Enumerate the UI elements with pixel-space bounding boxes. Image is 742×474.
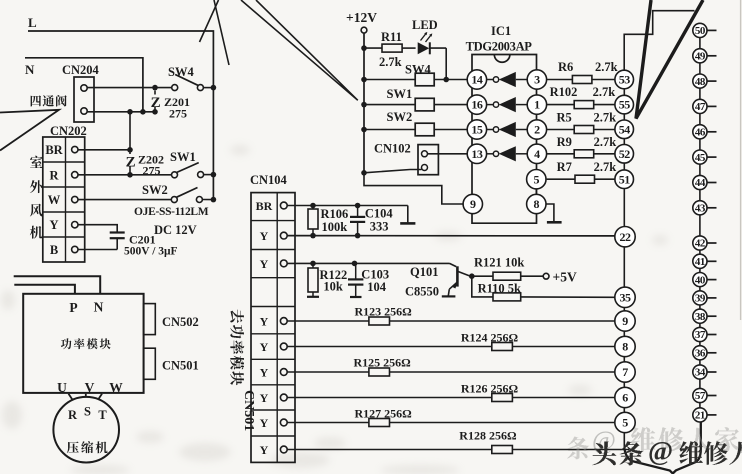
junction LED SW4 xyxy=(443,77,449,83)
transistor Q101 xyxy=(442,263,471,296)
connector CN104 label xyxy=(250,173,288,187)
node 43 xyxy=(693,201,717,215)
resistor R5 label xyxy=(557,111,617,125)
IC U1 pin 8 xyxy=(527,194,546,213)
svg-text:Y: Y xyxy=(260,366,269,380)
resistor R127 label xyxy=(355,407,413,421)
connector CN502 label xyxy=(162,315,199,329)
svg-text:Y: Y xyxy=(260,229,269,243)
junction C104 bottom xyxy=(355,233,361,239)
resistor R123 label xyxy=(355,305,413,319)
resistor R128 xyxy=(287,446,629,454)
resistor R106 xyxy=(308,206,318,236)
node 54 xyxy=(615,120,634,139)
svg-text:37: 37 xyxy=(695,329,706,341)
svg-text:2: 2 xyxy=(534,123,540,137)
svg-text:+12V: +12V xyxy=(346,10,377,25)
resistor R124 xyxy=(287,343,615,351)
svg-text:Y: Y xyxy=(260,340,269,354)
svg-text:50: 50 xyxy=(695,25,706,37)
svg-text:14: 14 xyxy=(471,73,483,87)
connector CN202 label xyxy=(50,124,87,138)
connector CN102 label xyxy=(374,142,411,156)
node 55 xyxy=(615,95,634,114)
svg-text:Y: Y xyxy=(260,257,269,271)
wire +12V bus xyxy=(363,33,365,173)
wire emitter junction xyxy=(470,275,494,277)
resistor R9 label xyxy=(557,135,617,149)
wire W to compressor xyxy=(98,394,102,400)
resistor R110 xyxy=(472,276,615,301)
junction SW1 L bus xyxy=(211,172,217,178)
svg-text:C8550: C8550 xyxy=(405,285,439,299)
svg-text:BR: BR xyxy=(45,143,63,157)
varistor Z201 label xyxy=(164,95,190,121)
terminal label N xyxy=(94,300,104,315)
resistor R106 label xyxy=(321,207,349,234)
node 9 xyxy=(615,311,635,331)
svg-text:6: 6 xyxy=(622,391,628,405)
wire to P terminal xyxy=(14,285,75,294)
svg-text:CN102: CN102 xyxy=(374,142,411,156)
svg-text:R5: R5 xyxy=(557,111,572,125)
svg-text:39: 39 xyxy=(695,293,706,305)
junction Z201 bottom xyxy=(152,109,158,115)
junction Q101 emitter xyxy=(469,273,475,279)
label power-module xyxy=(61,338,111,349)
net label L xyxy=(28,15,37,30)
wire CN202 B xyxy=(78,249,117,251)
switch SW2 label xyxy=(142,183,168,197)
svg-text:4: 4 xyxy=(534,147,540,161)
resistor R126 label xyxy=(461,382,519,396)
wire to N terminal xyxy=(14,276,101,294)
svg-text:35: 35 xyxy=(620,290,632,304)
svg-text:N: N xyxy=(25,62,35,77)
junction BR wire xyxy=(127,147,133,153)
connector CN104 xyxy=(251,193,295,463)
svg-text:8: 8 xyxy=(622,340,628,354)
svg-text:SW1: SW1 xyxy=(170,150,196,164)
switch SW2 (tact) xyxy=(364,123,467,136)
junction +12V bus SW2 xyxy=(361,127,367,133)
node 5 xyxy=(615,412,635,432)
switch SW4 (tact) xyxy=(364,73,467,86)
svg-text:48: 48 xyxy=(695,76,706,88)
wire Y1 row to node 22 xyxy=(287,235,615,237)
resistor R128 label xyxy=(459,429,517,443)
callout line a xyxy=(200,0,219,42)
svg-text:R9: R9 xyxy=(557,135,572,149)
resistor R122 xyxy=(307,263,319,296)
wire CN202 Y to C201 xyxy=(78,225,117,232)
resistor R123 xyxy=(287,317,615,325)
svg-text:333: 333 xyxy=(370,220,389,234)
node 35 xyxy=(615,287,635,307)
svg-text:16: 16 xyxy=(471,98,483,112)
switch SW1 (tact) label xyxy=(387,87,413,101)
switch SW1 (tact) xyxy=(364,98,467,111)
capacitor C201 xyxy=(110,233,125,250)
svg-text:3: 3 xyxy=(534,73,540,87)
callout line b xyxy=(214,0,229,65)
connector CN502 xyxy=(144,304,156,335)
svg-text:34: 34 xyxy=(695,367,706,379)
switch SW2 xyxy=(171,188,202,203)
node 6 xyxy=(615,387,635,407)
wire LED to pin14 net xyxy=(445,48,447,79)
svg-text:40: 40 xyxy=(695,274,706,286)
callout wedge left xyxy=(0,110,59,151)
svg-text:100k: 100k xyxy=(322,220,348,234)
resistor R11 value xyxy=(379,55,402,69)
supply +12V label xyxy=(346,10,377,25)
compressor circle xyxy=(53,397,119,463)
junction SW2 L bus xyxy=(211,197,217,203)
label to-power-module-CN501 (vertical) xyxy=(230,310,256,432)
junction +12V bus R11 xyxy=(361,45,367,51)
node 8 xyxy=(615,336,635,356)
switch SW2 (tact) label xyxy=(387,110,413,124)
node 42 xyxy=(693,236,717,250)
resistor R110 label xyxy=(478,282,521,296)
svg-text:R7: R7 xyxy=(557,160,572,174)
switch SW4 xyxy=(172,75,204,91)
IC U1 pin 4 xyxy=(527,144,546,163)
varistor Z202 label xyxy=(138,153,164,178)
svg-text:+5V: +5V xyxy=(553,270,577,285)
node 7 xyxy=(615,362,635,382)
switch SW4 (tact) label xyxy=(405,63,431,77)
resistor R124 label xyxy=(461,331,519,345)
svg-text:45: 45 xyxy=(695,152,706,164)
resistor R11 label xyxy=(381,30,402,44)
svg-text:53: 53 xyxy=(619,73,631,87)
node 47 xyxy=(693,99,717,113)
capacitor C201 label xyxy=(124,233,178,258)
svg-text:9: 9 xyxy=(622,314,628,328)
node 40 xyxy=(693,273,717,287)
svg-text:52: 52 xyxy=(619,147,631,161)
wire CN204 pin1 to SW4 xyxy=(87,87,172,89)
wire CN202 BR xyxy=(78,149,130,151)
svg-text:2.7k: 2.7k xyxy=(595,60,618,74)
svg-text:P: P xyxy=(69,300,77,315)
wire SW2 to L bus xyxy=(202,199,213,201)
node 36 xyxy=(693,346,717,360)
svg-text:275: 275 xyxy=(169,107,187,121)
switch SW1 xyxy=(172,163,204,178)
power module box xyxy=(23,294,143,393)
relay label OJE-SS-112LM xyxy=(134,206,209,218)
wire SW4 to L bus xyxy=(203,87,213,89)
node 21 xyxy=(693,408,717,422)
supply +12V terminal xyxy=(361,27,367,33)
svg-text:C104: C104 xyxy=(365,207,394,221)
connector CN102 xyxy=(418,145,438,175)
connector CN204 xyxy=(74,77,94,122)
svg-text:@: @ xyxy=(648,436,673,466)
svg-text:15: 15 xyxy=(471,123,483,137)
svg-text:CN204: CN204 xyxy=(62,63,100,77)
watermark headline xyxy=(593,436,742,466)
svg-text:U: U xyxy=(57,380,67,395)
svg-text:5: 5 xyxy=(622,416,628,430)
svg-text:C201: C201 xyxy=(129,233,156,247)
svg-text:36: 36 xyxy=(695,348,706,360)
IC U1 pin 3 xyxy=(527,70,546,89)
junction SW4 L bus xyxy=(211,85,217,91)
svg-text:2.7k: 2.7k xyxy=(379,55,402,69)
resistor R102 xyxy=(547,101,615,109)
net label N xyxy=(25,62,35,77)
node 37 xyxy=(693,327,717,341)
callout thick wedge (points at node 54) xyxy=(636,0,703,119)
junction CN204 pin2 a xyxy=(127,109,133,115)
svg-text:@: @ xyxy=(592,426,616,455)
svg-text:49: 49 xyxy=(695,51,706,63)
svg-text:SW4: SW4 xyxy=(405,63,431,77)
resistor R127 xyxy=(287,419,615,427)
svg-text:R: R xyxy=(68,408,78,422)
wire BR row xyxy=(287,203,408,209)
node 48 xyxy=(693,74,717,88)
supply +5V terminal xyxy=(543,270,577,285)
svg-text:22: 22 xyxy=(620,230,632,244)
wire right node chain xyxy=(699,38,701,408)
node 49 xyxy=(693,49,717,63)
resistor R6 xyxy=(547,76,615,84)
wire Y2 row xyxy=(287,261,449,267)
IC U1 pin 5 xyxy=(527,170,546,189)
svg-text:R121 10k: R121 10k xyxy=(474,256,524,270)
svg-text:2.7k: 2.7k xyxy=(594,160,617,174)
resistor R125 xyxy=(287,368,615,376)
IC U1 pin 14 xyxy=(467,70,486,89)
IC U1 body xyxy=(472,55,537,224)
IC U1 pin 16 xyxy=(467,95,486,114)
wire CN202 R to SW1 xyxy=(78,174,172,176)
ground at pin 8 xyxy=(546,204,562,222)
wire V to compressor xyxy=(85,394,87,398)
switch SW1 label xyxy=(170,150,196,164)
connector CN202 xyxy=(43,137,85,262)
LED label xyxy=(412,18,438,32)
resistor R9 xyxy=(547,150,615,158)
wire L xyxy=(28,31,213,200)
svg-text:9: 9 xyxy=(470,197,476,211)
node 38 xyxy=(693,309,717,323)
resistor R7 label xyxy=(557,160,617,174)
IC U1 pin 15 xyxy=(467,120,486,139)
capacitor C103 xyxy=(348,263,363,297)
node 52 xyxy=(615,145,634,164)
resistor R122 label xyxy=(320,268,348,294)
svg-text:T: T xyxy=(98,408,107,422)
svg-text:CN202: CN202 xyxy=(50,124,87,138)
svg-text:CN104: CN104 xyxy=(250,173,288,187)
svg-text:8: 8 xyxy=(534,197,540,211)
svg-text:2.7k: 2.7k xyxy=(593,85,616,99)
node 41 xyxy=(693,254,717,268)
svg-text:R102: R102 xyxy=(550,85,578,99)
label outdoor-fan (vertical) xyxy=(30,156,43,239)
svg-text:L: L xyxy=(28,15,37,30)
svg-text:CN501: CN501 xyxy=(241,390,256,431)
svg-text:10k: 10k xyxy=(323,280,343,294)
resistor R121 xyxy=(493,272,543,280)
node 39 xyxy=(693,291,717,305)
svg-text:44: 44 xyxy=(695,177,706,189)
varistor Z202 xyxy=(126,150,136,175)
svg-text:7: 7 xyxy=(622,365,628,379)
wire +12V to pin9 xyxy=(364,173,463,204)
svg-text:500V / 3μF: 500V / 3μF xyxy=(124,246,178,258)
varistor Z201 xyxy=(151,91,161,112)
resistor R102 label xyxy=(550,85,616,99)
IC U1 pin 13 xyxy=(467,144,486,163)
svg-text:55: 55 xyxy=(619,98,631,112)
ground at BR row xyxy=(400,206,415,224)
wire node 53 up xyxy=(624,11,694,70)
svg-text:47: 47 xyxy=(695,101,706,113)
svg-text:38: 38 xyxy=(695,311,706,323)
svg-text:Y: Y xyxy=(260,391,269,405)
svg-text:46: 46 xyxy=(695,127,706,139)
svg-text:W: W xyxy=(109,380,123,395)
node 50 xyxy=(693,23,717,37)
capacitor C104 label xyxy=(365,207,394,234)
svg-text:41: 41 xyxy=(695,256,705,268)
wire CN102 pin1 to pin13 xyxy=(428,153,468,155)
svg-text:2.7k: 2.7k xyxy=(594,111,617,125)
svg-text:54: 54 xyxy=(619,122,631,136)
svg-text:13: 13 xyxy=(471,147,483,161)
resistor R11 xyxy=(364,44,416,52)
svg-text:CN501: CN501 xyxy=(162,359,199,373)
junction R wire xyxy=(127,172,133,178)
wire N xyxy=(25,58,143,112)
node 45 xyxy=(693,150,717,164)
terminal labels U V W xyxy=(57,380,123,395)
label DC 12V xyxy=(154,223,197,237)
node 51 xyxy=(615,170,634,189)
junction Z201 top xyxy=(152,85,158,91)
IC U1 pin 1 xyxy=(527,95,546,114)
IC U1 pin link 5-8 xyxy=(535,189,537,195)
svg-text:SW2: SW2 xyxy=(387,110,413,124)
capacitor C103 label xyxy=(361,268,389,295)
svg-text:B: B xyxy=(50,243,58,257)
wire CN204 pin2 xyxy=(87,111,155,113)
node 53 xyxy=(615,70,634,89)
IC U1 pin 2 xyxy=(527,120,546,139)
node 57 xyxy=(693,388,717,402)
svg-text:42: 42 xyxy=(695,238,706,250)
wire CN102 pin2 to bus xyxy=(364,170,422,173)
svg-text:Y: Y xyxy=(49,218,58,232)
resistor R121 label xyxy=(474,256,524,270)
wire bottom brace xyxy=(624,422,701,474)
svg-text:Y: Y xyxy=(260,416,269,430)
resistor R5 xyxy=(547,126,615,134)
connector CN501 xyxy=(144,348,156,379)
svg-text:51: 51 xyxy=(619,172,631,186)
svg-text:CN502: CN502 xyxy=(162,315,199,329)
wire SW1 to L bus xyxy=(204,174,214,176)
svg-text:TDG2003AP: TDG2003AP xyxy=(466,40,533,54)
svg-text:R6: R6 xyxy=(558,60,573,74)
svg-text:1: 1 xyxy=(534,98,540,112)
svg-text:R11: R11 xyxy=(381,30,402,44)
wire U to compressor xyxy=(69,394,73,400)
svg-text:N: N xyxy=(94,300,104,315)
capacitor C104 xyxy=(350,206,365,236)
svg-text:Q101: Q101 xyxy=(410,265,438,279)
svg-text:IC1: IC1 xyxy=(491,24,511,38)
svg-text:104: 104 xyxy=(367,280,387,294)
svg-text:LED: LED xyxy=(412,18,438,32)
svg-text:V: V xyxy=(85,380,95,395)
svg-text:57: 57 xyxy=(695,390,706,402)
wire CN202 W to SW2 xyxy=(78,199,171,201)
junction N to CN204 wire xyxy=(140,109,146,115)
svg-text:R: R xyxy=(49,168,59,182)
label compressor xyxy=(67,441,108,453)
junction +12V bus SW4 xyxy=(361,77,367,83)
IC U1 inverters xyxy=(487,72,528,161)
watermark ghost xyxy=(567,426,739,459)
callout wedge c xyxy=(241,0,358,100)
svg-text:5: 5 xyxy=(534,172,540,186)
svg-text:SW2: SW2 xyxy=(142,183,168,197)
connector CN501 label xyxy=(162,359,199,373)
transistor Q101 label xyxy=(405,265,439,299)
svg-text:R128 256Ω: R128 256Ω xyxy=(459,429,517,443)
svg-text:W: W xyxy=(48,193,61,207)
svg-text:43: 43 xyxy=(695,203,706,215)
node 46 xyxy=(693,125,717,139)
svg-text:Y: Y xyxy=(260,443,269,457)
resistor R126 xyxy=(287,394,615,402)
resistor R125 label xyxy=(354,356,412,370)
node 44 xyxy=(693,175,717,189)
svg-text:BR: BR xyxy=(256,199,273,213)
svg-text:2.7k: 2.7k xyxy=(594,135,617,149)
LED D1 xyxy=(418,32,447,54)
junction R106 bottom xyxy=(310,233,316,239)
IC U1 pin 9 xyxy=(463,194,482,213)
svg-text:S: S xyxy=(84,405,91,419)
label four-way-valve xyxy=(31,95,67,107)
junction +12V bus CN102 xyxy=(361,170,367,176)
svg-text:Y: Y xyxy=(260,315,269,329)
resistor R6 label xyxy=(558,60,618,74)
resistor R7 xyxy=(547,175,615,183)
svg-text:SW1: SW1 xyxy=(387,87,413,101)
compressor terminals R S T xyxy=(68,405,107,423)
IC U1 label xyxy=(466,24,533,54)
svg-text:R106: R106 xyxy=(321,207,349,221)
connector CN204 label xyxy=(62,63,100,77)
wire left node chain xyxy=(623,89,625,448)
svg-text:21: 21 xyxy=(695,410,705,422)
wire N branch down to Z202 xyxy=(129,112,131,150)
svg-text:DC 12V: DC 12V xyxy=(154,223,197,237)
terminal label P xyxy=(69,300,77,315)
node 34 xyxy=(693,365,717,379)
switch SW4 label xyxy=(168,65,194,79)
